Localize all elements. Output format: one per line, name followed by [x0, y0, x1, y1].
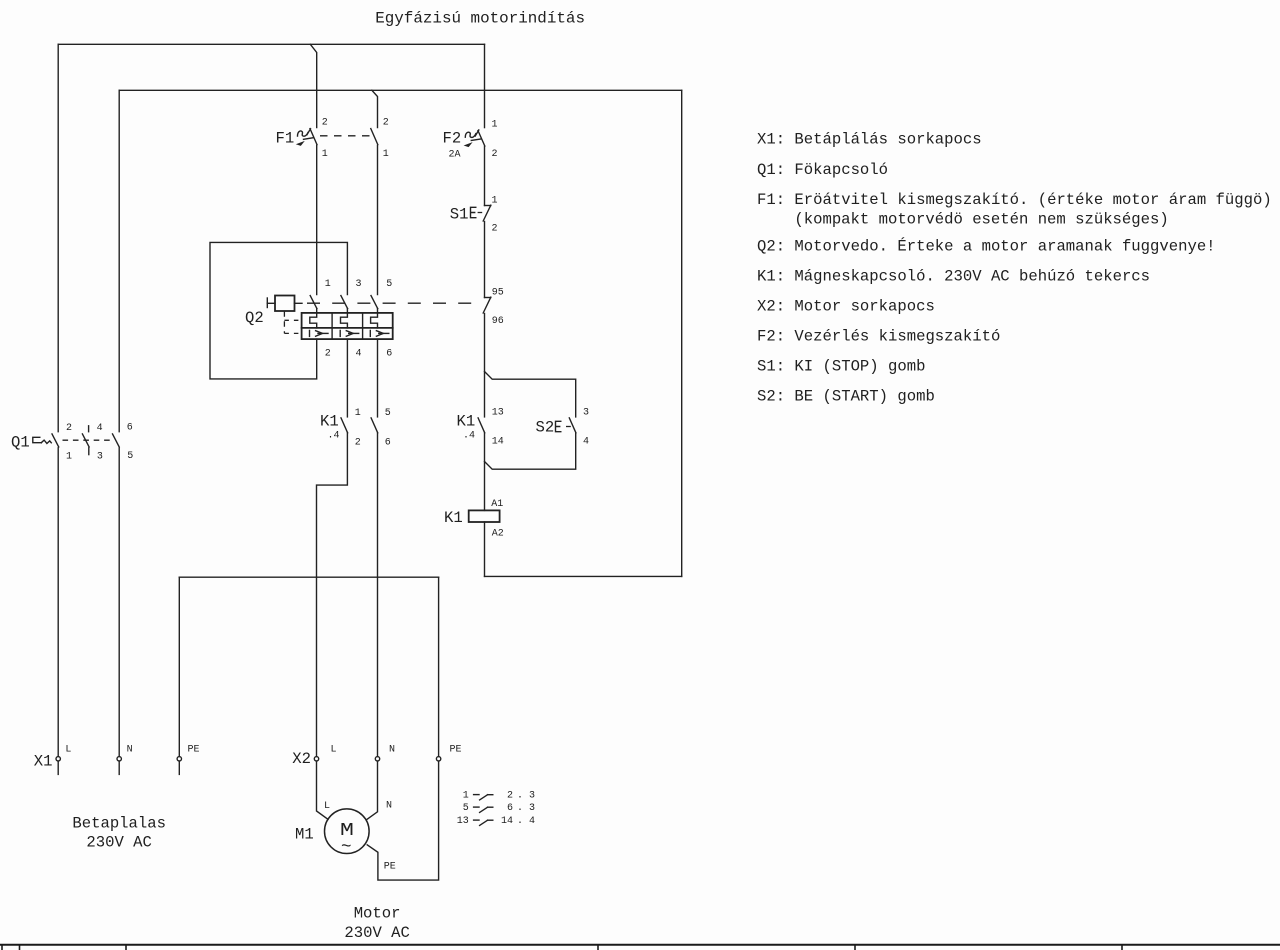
- svg-text:F2: F2: [443, 130, 462, 148]
- K1 contact 5-6: [371, 418, 378, 433]
- svg-text:S2: S2: [536, 419, 555, 437]
- Q1 pole 1-2 contact: [52, 434, 59, 447]
- svg-text:~: ~: [341, 838, 352, 858]
- S2 contact: [569, 418, 576, 433]
- Q2 operator box: [275, 296, 295, 312]
- svg-text:3: 3: [583, 408, 589, 419]
- wire Q2 pole5 out to K1 contact 5: [377, 339, 379, 417]
- breaker F1: [276, 118, 389, 161]
- svg-text:. 3: . 3: [517, 803, 535, 814]
- wire F2 to S1: [484, 146, 486, 205]
- svg-text:2: 2: [66, 423, 72, 434]
- Q2 operator lead bar: [266, 298, 268, 308]
- svg-text:2: 2: [507, 790, 513, 801]
- svg-text:1: 1: [492, 196, 498, 207]
- svg-text:X2: Motor sorkapocs: X2: Motor sorkapocs: [757, 298, 935, 316]
- Q2 I> trip symbol pole 1: [310, 330, 329, 336]
- wire X2 N to motor: [366, 761, 377, 819]
- S2 actuator dash: [566, 426, 571, 428]
- F2 contact: [478, 131, 485, 146]
- K1 coil box: [469, 510, 500, 522]
- wire F1 pole2 to Q2 pole5: [377, 145, 379, 294]
- title block cell dividers: [2, 944, 1122, 950]
- wire branch to S2 (upper, 45° jog): [485, 372, 576, 417]
- svg-text:5: 5: [386, 279, 392, 290]
- svg-text:6: 6: [385, 438, 391, 449]
- svg-text:230V AC: 230V AC: [344, 924, 410, 942]
- svg-text:5: 5: [463, 803, 469, 814]
- contactor coil K1: [444, 499, 504, 540]
- wire Q2 series loop (pole1 out, around to pole3 in): [210, 242, 347, 379]
- svg-text:L: L: [331, 745, 337, 756]
- wire PE bus (y=577.2): [179, 576, 438, 578]
- Q2 I> trip symbol pole 3: [340, 330, 359, 336]
- wire 14 to coil A1: [484, 433, 486, 510]
- wire F1 pole1 to Q2 pole1: [316, 145, 318, 294]
- svg-text:X1: X1: [34, 753, 53, 771]
- wire N rail lower (Q1 pole3 to X1 N): [118, 448, 120, 757]
- terminal strip X2: [292, 745, 461, 769]
- motor circle: [325, 809, 370, 854]
- wire X2 L to motor: [317, 761, 329, 819]
- svg-text:M1: M1: [295, 826, 314, 844]
- wire L rail (x=58.2 down to X1 L): [57, 44, 59, 431]
- svg-text:(kompakt motorvédö esetén nem: (kompakt motorvédö esetén nem szükséges): [794, 210, 1168, 228]
- K1 contact 1-2: [341, 418, 348, 433]
- svg-text:1: 1: [492, 120, 498, 131]
- svg-text:2: 2: [383, 118, 389, 129]
- breaker F2: [443, 120, 498, 161]
- title block top border: [0, 944, 1280, 946]
- svg-text:Betaplalas: Betaplalas: [72, 815, 166, 833]
- Q2 main linkage dashed line to aux contact: [307, 302, 478, 304]
- main switch Q1: [11, 423, 133, 463]
- svg-text:1: 1: [355, 408, 361, 419]
- svg-text:3: 3: [97, 452, 103, 463]
- F2 breaker actuator icon: [465, 132, 476, 137]
- svg-text:Egyfázisú motorindítás: Egyfázisú motorindítás: [375, 10, 585, 28]
- svg-text:2: 2: [325, 349, 331, 360]
- svg-text:4: 4: [97, 423, 103, 434]
- Q2 pole 5 entry wire: [377, 309, 379, 313]
- svg-text:1: 1: [322, 149, 328, 160]
- svg-text:L: L: [65, 745, 71, 756]
- wire N bus (y=90.3 from N rail to right rail): [119, 89, 682, 91]
- svg-text:. 4: . 4: [517, 816, 535, 827]
- svg-text:2: 2: [355, 438, 361, 449]
- svg-text:4: 4: [583, 437, 589, 448]
- Q2 overload block column dividers: [331, 313, 333, 339]
- wire control right rail (x=681.7): [681, 90, 683, 576]
- Q1 pole 3-4 contact: [82, 434, 89, 447]
- wire L rail lower (Q1 pole1 to X1 L): [57, 448, 59, 757]
- svg-text:14: 14: [492, 437, 504, 448]
- wire coil A2 to control bottom: [484, 522, 486, 576]
- wire X2 PE to motor: [367, 761, 438, 880]
- svg-text:PE: PE: [450, 745, 462, 756]
- svg-text:5: 5: [385, 408, 391, 419]
- X1 terminal L tail: [57, 761, 59, 774]
- terminal strip X1: [34, 745, 200, 775]
- Q2 operator stub to linkage: [295, 302, 303, 304]
- wire K1 pin6 to X2 N: [377, 433, 379, 756]
- svg-text:S1: S1: [450, 206, 469, 224]
- svg-text:2A: 2A: [449, 150, 461, 161]
- X1 terminal PE circle: [177, 757, 181, 761]
- svg-text:N: N: [389, 745, 395, 756]
- Q2 thermal element pole 5: [371, 313, 378, 328]
- wire control bottom return: [485, 575, 682, 577]
- S1 actuator dash: [478, 212, 483, 214]
- F1 linkage dashed line: [320, 135, 372, 137]
- svg-text:14: 14: [501, 816, 513, 827]
- svg-text:Q1: Q1: [11, 434, 30, 452]
- Q1 handle icon: [33, 437, 42, 442]
- 95/96 NC contact: [485, 297, 491, 299]
- X1 terminal L circle: [56, 757, 60, 761]
- Q2 pole 1 contact: [310, 296, 317, 309]
- svg-text:Q2: Q2: [245, 309, 264, 327]
- X1 terminal N circle: [117, 757, 121, 761]
- contactor K1 main contacts: [320, 408, 391, 449]
- wire 96 to branch node: [484, 314, 486, 417]
- svg-text:S2: BE (START) gomb: S2: BE (START) gomb: [757, 387, 935, 405]
- svg-text:5: 5: [127, 451, 133, 462]
- K1 13-14 contact: [478, 418, 485, 433]
- K1 contact cross-reference table: [457, 790, 535, 827]
- Q2 pole 3 entry wire: [346, 309, 348, 313]
- svg-text:2: 2: [492, 224, 498, 235]
- Q1 pole 5-6 contact: [113, 434, 120, 447]
- svg-text:1: 1: [383, 149, 389, 160]
- motor M1: [295, 809, 369, 858]
- wire branch from S2 bottom (45° jog): [485, 433, 576, 469]
- svg-text:.4: .4: [463, 431, 475, 442]
- wire PE to X1: [178, 577, 180, 756]
- svg-text:3: 3: [356, 279, 362, 290]
- svg-text:A2: A2: [492, 529, 504, 540]
- X2 terminal L circle: [314, 757, 318, 761]
- svg-text:S1: KI (STOP) gomb: S1: KI (STOP) gomb: [757, 357, 925, 375]
- svg-text:N: N: [127, 745, 133, 756]
- svg-text:K1: K1: [444, 509, 463, 527]
- X1 terminal PE tail: [178, 761, 180, 774]
- svg-text:A1: A1: [491, 499, 503, 510]
- svg-text:1: 1: [66, 452, 72, 463]
- svg-text:K1: K1: [320, 413, 339, 431]
- Q2 aux NC contact 95/96: [483, 288, 504, 328]
- F1 pole 1-2 contact: [310, 129, 317, 145]
- svg-text:Q2: Motorvedo. Érteke a motor: Q2: Motorvedo. Érteke a motor aramanak f…: [757, 236, 1216, 255]
- Q1 linkage dashed line: [63, 439, 114, 441]
- wire S1 to Q2 aux 95: [484, 222, 486, 298]
- svg-text:PE: PE: [384, 862, 396, 873]
- Q2 pole 5 contact: [371, 296, 378, 309]
- svg-text:N: N: [386, 801, 392, 812]
- svg-text:F1: Eröátvitel kismegszakító.: F1: Eröátvitel kismegszakító. (értéke mo…: [757, 191, 1272, 209]
- F1 pole 2 contact: [371, 129, 378, 145]
- Q2 trip linkage dashed horizontal (lower): [284, 332, 301, 334]
- svg-text:2: 2: [322, 118, 328, 129]
- svg-text:6: 6: [507, 803, 513, 814]
- svg-text:. 3: . 3: [517, 790, 535, 801]
- wire L top bus (y=44.3 from left rail to F2 drop): [58, 43, 484, 45]
- S1 NC contact: [485, 205, 491, 207]
- Q2 overload block row divider: [302, 327, 393, 329]
- Q2 trip linkage dashed horizontal (upper): [284, 319, 301, 321]
- X1 terminal N tail: [118, 761, 120, 774]
- pushbutton S1 (KI/STOP, NC): [450, 196, 498, 235]
- svg-text:F2: Vezérlés kismegszakító: F2: Vezérlés kismegszakító: [757, 327, 1000, 345]
- svg-text:230V AC: 230V AC: [86, 834, 152, 852]
- svg-text:13: 13: [457, 816, 469, 827]
- svg-text:2: 2: [492, 149, 498, 160]
- Q2 thermal element pole 3: [341, 313, 348, 328]
- svg-text:X2: X2: [292, 750, 311, 768]
- wire Q2 pole3 out to K1 contact 1: [346, 339, 348, 417]
- X2 terminal PE circle: [436, 757, 440, 761]
- svg-text:1: 1: [325, 279, 331, 290]
- svg-text:K1: K1: [457, 413, 476, 431]
- svg-text:6: 6: [127, 423, 133, 434]
- Q2 pole 3 contact: [341, 296, 348, 309]
- svg-text:Motor: Motor: [354, 905, 401, 923]
- svg-text:.4: .4: [328, 431, 340, 442]
- Q2 trip linkage dashed vertical: [283, 311, 285, 333]
- motor protection Q2: [245, 279, 478, 360]
- pushbutton S2 (BE/START, NO): [536, 408, 590, 448]
- F1 pole 1-2 breaker actuator icon: [298, 131, 309, 136]
- svg-text:4: 4: [356, 349, 362, 360]
- svg-text:PE: PE: [188, 745, 200, 756]
- wire K1 pin2 jog to X2 L: [317, 433, 348, 756]
- S1 button head icon: [471, 207, 476, 217]
- svg-text:K1: Mágneskapcsoló. 230V AC be: K1: Mágneskapcsoló. 230V AC behúzó teker…: [757, 268, 1150, 286]
- Q2 I> trip symbol pole 5: [370, 330, 389, 336]
- svg-text:Q1: Fökapcsoló: Q1: Fökapcsoló: [757, 161, 888, 179]
- svg-text:6: 6: [386, 349, 392, 360]
- svg-text:96: 96: [492, 316, 504, 327]
- X2 terminal N circle: [375, 757, 379, 761]
- svg-text:95: 95: [492, 288, 504, 299]
- Q1 pole 3-4 stub top: [88, 426, 90, 432]
- Q2 pole 1 entry wire: [316, 309, 318, 313]
- wire N rail (x=119.2 down to X1 N): [118, 90, 120, 431]
- svg-text:F1: F1: [276, 130, 295, 148]
- Q1 pole 3-4 stub bottom: [88, 448, 90, 455]
- svg-text:13: 13: [492, 408, 504, 419]
- svg-text:1: 1: [463, 790, 469, 801]
- svg-text:L: L: [324, 801, 330, 812]
- svg-text:X1: Betáplálás sorkapocs: X1: Betáplálás sorkapocs: [757, 131, 982, 149]
- wire branch L bus to F1 pole 1 (45° jog): [310, 44, 316, 127]
- wire F2 drop (x=484.5 from L bus corner to F2 pin1): [484, 44, 486, 127]
- wire branch N bus to F1 pole 2 (45° jog): [372, 90, 378, 127]
- Q2 thermal element pole 1: [310, 313, 317, 328]
- S2 button head icon: [556, 421, 561, 431]
- Q2 overload block outer box: [302, 313, 393, 339]
- contactor K1 aux contact 13/14: [457, 408, 504, 448]
- wire PE to X2: [438, 577, 440, 756]
